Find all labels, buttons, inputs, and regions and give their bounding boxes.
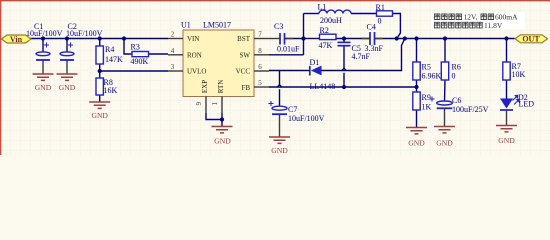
svg-text:47K: 47K [319,41,333,50]
resistor R2 [319,26,337,50]
svg-text:LM5017: LM5017 [203,21,231,30]
ground below R9 [406,128,427,134]
CJK line 2 glyph blocks (此电路实际输出约) [435,22,483,28]
wire R5-R9 junction segment [416,80,418,92]
wire R5 top [416,39,418,63]
lead C4 left pin [362,38,371,40]
wire SW node to R2 [304,38,320,40]
svg-text:OUT: OUT [522,35,540,44]
hop C5 over VCC line [342,68,346,70]
wire R4-R8 junction segment [99,64,101,78]
svg-text:R3: R3 [131,42,140,51]
svg-text:UVLO: UVLO [187,68,206,76]
svg-text:10uF/100V: 10uF/100V [66,29,103,38]
op-amp U1 LM5017 regulator body [181,21,254,97]
wire UVLO to R4/R8 junction [100,70,168,72]
svg-text:BST: BST [237,35,251,43]
ground below D2 [496,126,517,132]
svg-text:2: 2 [171,31,175,39]
svg-text:11.8V: 11.8V [484,21,503,30]
node C1 tap [41,36,45,40]
annotation text box [431,12,525,30]
svg-text:U1: U1 [181,21,191,30]
node C5 tap on rail [342,36,346,40]
svg-text:EXP: EXP [201,80,209,93]
svg-text:6: 6 [258,63,262,71]
resistor R3 [131,42,149,66]
resistor R5 [413,62,442,81]
svg-text:GND: GND [498,136,515,145]
node R6 tap [443,36,447,40]
wire C4 to OUT port rail [375,38,516,40]
svg-text:LL4148: LL4148 [310,82,336,91]
svg-text:4: 4 [171,47,175,55]
wire input rail Vin to pin2 [30,38,168,40]
capacitor C5 [338,42,371,60]
svg-text:RTN: RTN [217,80,225,94]
svg-text:GND: GND [91,111,108,120]
wire SW node vertical [303,14,305,55]
ground below U1 RTN [212,127,233,133]
wire R3 column from rail [124,39,132,55]
pin 1 RTN stub [221,97,223,114]
node R4 tap [98,36,102,40]
svg-text:GND: GND [271,146,288,155]
svg-text:L1: L1 [318,3,327,12]
wire C2 ground stub [66,61,68,75]
svg-text:10K: 10K [512,70,526,79]
svg-text:10uF/100V: 10uF/100V [26,29,63,38]
svg-text:FB: FB [241,84,250,92]
ground below C6 [434,127,455,133]
wire C7 drop from VCC crossing FB line [279,71,281,107]
node VCC branch joins rail [403,36,407,40]
wire R6 to C6 [444,80,447,101]
wire C2 drop [66,39,68,53]
CJK line 1 glyph blocks (期望输出 / 电流) [435,14,494,20]
svg-text:C7: C7 [288,105,297,114]
wire node to L1 [304,13,320,15]
node SW/C3/L1 [301,36,305,40]
wire FB line [269,86,417,88]
svg-text:Vin: Vin [10,35,23,44]
wire D2 to ground [506,111,508,126]
capacitor C4 [365,23,384,54]
pin 9 EXP stub [205,97,207,114]
port Vin [2,35,32,44]
svg-text:10uF/100V: 10uF/100V [288,114,325,123]
wire R7 top [506,39,508,63]
wire R6 top [444,39,446,63]
svg-text:GND: GND [59,83,76,92]
ground below C7 [269,137,290,143]
diode D1 [310,58,336,91]
svg-text:GND: GND [214,137,231,146]
svg-text:16K: 16K [104,86,118,95]
resistor R9 [413,92,432,112]
hop C7 over FB line [277,85,281,87]
wire IC ground stub [221,120,223,127]
resistor R6 [441,62,461,81]
svg-text:LED: LED [519,100,535,109]
capacitor C7 [269,101,325,123]
svg-text:490K: 490K [131,57,149,66]
wire C1 ground stub [42,61,44,75]
wire R3 to RON pin [149,53,169,55]
svg-text:R5: R5 [422,63,431,72]
wire C5 top lead [343,39,345,43]
node R3 tap [122,36,126,40]
svg-text:C3: C3 [274,22,283,31]
svg-text:GND: GND [35,83,52,92]
node FB/R5/R9 junction [414,85,418,89]
wire R4 column top [99,39,101,47]
svg-text:SW: SW [240,52,251,60]
resistor R7 [503,62,526,80]
node R5 tap [414,36,418,40]
svg-text:C4: C4 [367,23,376,32]
wire EXP/RTN to ground node [206,113,222,120]
LED D2 [500,93,534,110]
svg-text:GND: GND [408,139,425,148]
inductor L1 [318,3,352,25]
capacitor C3 [274,22,300,54]
wire C5 bottom lead crossing VCC line [343,46,345,87]
svg-text:R6: R6 [452,63,461,72]
node R4/R8/UVLO junction [98,69,102,73]
ground below C2 [57,74,78,80]
svg-text:200uH: 200uH [320,16,342,25]
lead C3 right pin [285,38,294,40]
pin 5 FB stub [254,86,269,88]
resistor R1 [376,3,393,26]
node R7/OUT tap [504,36,508,40]
wire D1 to riser and up to rail [322,39,405,71]
svg-text:C6: C6 [452,96,461,105]
wire R7 to D2 [506,80,508,99]
wire R1 to output rail with kink [393,14,401,39]
svg-text:D1: D1 [310,58,320,67]
svg-text:R2: R2 [320,26,329,35]
wire R9 to ground [416,110,418,127]
wire SW pin to node [269,54,304,56]
svg-text:VCC: VCC [236,68,251,76]
node EXP/RTN ground junction [220,117,224,121]
wire BST to C3 [269,38,280,40]
ground below C1 [33,74,54,80]
wire C1 drop [42,39,44,53]
port OUT [515,35,548,44]
node L1/R1 branch joins rail [395,36,399,40]
resistor R4 [96,45,123,64]
wire C7 to ground [279,115,281,137]
svg-text:9: 9 [195,102,203,106]
svg-text:100uF/25V: 100uF/25V [452,105,489,114]
svg-text:0.01uF: 0.01uF [277,45,300,54]
svg-text:7: 7 [258,31,262,39]
svg-text:RON: RON [187,52,202,60]
svg-text:GND: GND [436,139,453,148]
pin 2 VIN stub [168,38,183,40]
pin 6 VCC stub [254,70,269,72]
svg-text:R1: R1 [376,3,385,12]
wire L1 to R1 [351,13,377,15]
capacitor C1 [26,22,63,60]
pin 3 UVLO stub [168,70,183,72]
wire C6 to ground [444,109,446,127]
svg-text:6.96K: 6.96K [422,72,442,81]
wire VCC pin to D1 [269,70,310,72]
node C2 tap [65,36,69,40]
svg-text:R4: R4 [105,45,114,54]
pin 8 SW stub [254,54,269,56]
pin 4 RON stub [168,54,183,56]
svg-text:0: 0 [378,17,382,26]
pin 7 BST stub [254,38,269,40]
capacitor C2 [60,22,103,60]
svg-text:4.7nF: 4.7nF [352,52,371,61]
lead C4 right pin [375,38,384,40]
svg-text:1K: 1K [422,103,432,112]
node C5/FB junction [342,85,346,89]
svg-text:5: 5 [258,79,262,87]
wire R8 to ground [99,95,101,102]
svg-text:8: 8 [258,47,262,55]
ground below R8 [89,102,110,108]
svg-text:R9: R9 [422,93,431,102]
wire R2 to C4 [336,38,370,40]
svg-text:0: 0 [452,72,456,81]
svg-text:3: 3 [171,63,175,71]
svg-text:12V,: 12V, [464,13,478,22]
wire C3 to SW node [285,38,304,40]
sheet border left [0,0,2,155]
resistor R8 [96,78,118,95]
sheet border top [0,0,550,2]
svg-text:VIN: VIN [187,35,199,43]
capacitor C6 [430,96,489,114]
svg-text:147K: 147K [105,55,123,64]
svg-text:1: 1 [211,102,219,106]
